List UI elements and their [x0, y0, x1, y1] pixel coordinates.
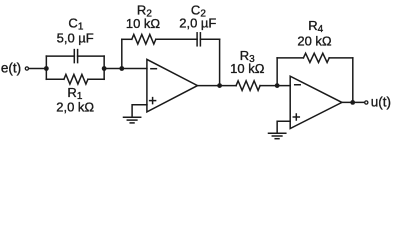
svg-text:2,0 µF: 2,0 µF — [179, 16, 216, 31]
wire op-amp U2 non-inverting input — [277, 121, 290, 133]
wire feedback-1 rail middle — [156, 38, 197, 40]
wire feedback-2 right vertical — [352, 58, 354, 103]
wire parallel-block bottom rail left — [46, 78, 64, 80]
node B (block output junction) — [102, 66, 107, 71]
svg-text:2,0 kΩ: 2,0 kΩ — [56, 99, 94, 114]
wire feedback-1 left vertical — [121, 39, 123, 68]
wire feedback-1 right vertical — [219, 39, 221, 85]
wire feedback-2 left vertical — [276, 58, 278, 86]
capacitor C1 — [74, 50, 77, 63]
node D (U1 output junction) — [217, 83, 222, 88]
wire parallel-block right edge — [103, 56, 105, 79]
wire op-amp U1 output — [198, 85, 237, 87]
node F (output junction) — [350, 100, 355, 105]
wire op-amp U2 output — [342, 101, 364, 103]
wire feedback-1 rail left — [122, 38, 132, 40]
ground (op-amp U2) — [269, 133, 286, 138]
svg-text:10 kΩ: 10 kΩ — [230, 61, 265, 76]
wire feedback-2 rail left — [277, 57, 303, 59]
node A (input junction) — [44, 66, 49, 71]
ground (op-amp U1) — [124, 117, 141, 123]
output terminal u(t) — [365, 101, 368, 104]
resistor R2 — [132, 35, 156, 45]
wire parallel-block top rail left — [46, 55, 74, 57]
svg-text:e(t): e(t) — [1, 61, 21, 76]
node C (feedback tap) — [119, 66, 124, 71]
wire parallel-block top rail right — [78, 55, 105, 57]
capacitor C2 — [197, 33, 200, 46]
resistor R4 — [303, 53, 329, 62]
svg-text:10 kΩ: 10 kΩ — [126, 16, 161, 31]
wire parallel-block left edge — [45, 56, 47, 79]
resistor R3 — [236, 81, 260, 91]
wire node B to op-amp U1 inverting input — [104, 68, 147, 70]
svg-text:5,0 µF: 5,0 µF — [57, 31, 94, 46]
svg-text:20 kΩ: 20 kΩ — [297, 33, 332, 48]
svg-text:u(t): u(t) — [371, 95, 391, 110]
wire feedback-2 rail right — [329, 57, 353, 59]
op-amp U2 — [290, 76, 342, 128]
wire feedback-1 rail right — [200, 38, 219, 40]
wire R3 to op-amp U2 inverting input — [260, 85, 290, 87]
resistor R1 — [64, 75, 88, 85]
op-amp U1 — [147, 59, 198, 112]
input terminal e(t) — [25, 67, 28, 70]
wire parallel-block bottom rail right — [88, 78, 104, 80]
wire op-amp U1 non-inverting input — [132, 105, 147, 118]
wire input to node A — [29, 68, 46, 70]
node E (U2 input junction) — [275, 83, 280, 88]
